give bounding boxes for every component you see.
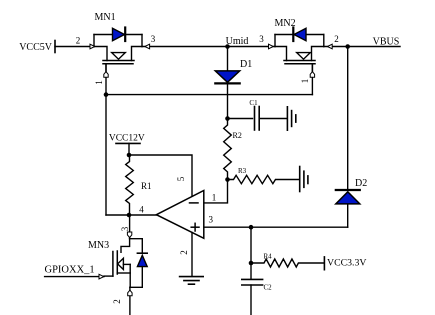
MN1 pin 1 arrow	[104, 72, 108, 78]
svg-text:VCC5V: VCC5V	[19, 42, 53, 53]
wire to capacitor C1	[228, 118, 253, 120]
svg-text:D1: D1	[240, 59, 252, 70]
MN1 pin 2 arrow	[90, 44, 95, 49]
node 4 (op-amp output)	[127, 213, 132, 218]
svg-text:R2: R2	[233, 131, 242, 140]
svg-text:2: 2	[179, 250, 189, 255]
svg-text:1: 1	[300, 79, 310, 84]
wire MN3 pin 2 down	[129, 287, 131, 315]
ground (right of C1, rotated)	[287, 107, 295, 130]
resistor R1	[126, 155, 152, 215]
diode D1	[215, 59, 252, 83]
wire C2 bottom down	[250, 285, 252, 315]
svg-text:D2: D2	[355, 178, 367, 189]
MN2 pin 2 arrow	[327, 44, 332, 49]
gate bar	[285, 63, 315, 65]
svg-text:R1: R1	[141, 181, 152, 191]
op-amp U1	[156, 191, 203, 239]
svg-text:MN1: MN1	[95, 12, 116, 23]
svg-text:2: 2	[76, 36, 81, 46]
svg-text:2: 2	[334, 34, 339, 44]
transistor MN2	[275, 18, 324, 72]
bridge left vertical	[274, 35, 276, 47]
wire R2/R3 node down and left to op-amp pin 1	[204, 180, 228, 203]
channel bar	[284, 60, 315, 62]
wire junction down to R4/C2 node	[250, 227, 252, 263]
wire D2 anode corner	[347, 204, 349, 227]
MN1 pin 3 arrow	[145, 44, 150, 49]
svg-text:R4: R4	[264, 253, 273, 261]
svg-text:MN3: MN3	[88, 240, 109, 251]
wire D2 cathode up to VBUS	[347, 47, 349, 191]
gate stub	[105, 64, 107, 72]
wire op-amp pin 2 to ground	[191, 233, 193, 277]
wire VCC12V node to op-amp pin 5	[129, 155, 192, 196]
svg-text:5: 5	[176, 176, 186, 181]
body diode of MN2	[294, 28, 306, 40]
node op-amp pin3 / C2 branch junction	[249, 225, 254, 230]
channel bar	[103, 60, 134, 62]
node VBUS junction	[345, 44, 350, 49]
MN3 pin 3 arrow	[127, 232, 131, 238]
minus input mark	[190, 202, 199, 204]
wire Umid down to D1	[227, 47, 229, 71]
transistor MN1	[94, 12, 142, 72]
wire gate net down the left side	[105, 95, 107, 215]
svg-text:VCC3.3V: VCC3.3V	[327, 257, 366, 268]
wire left column to node 4	[106, 214, 156, 216]
power port VCC12V	[109, 134, 145, 156]
bridge left vertical	[93, 35, 95, 47]
node gate-net junction	[104, 92, 109, 97]
node Umid	[225, 44, 230, 49]
svg-text:GPIOXX_1: GPIOXX_1	[45, 265, 95, 276]
node C1 junction	[225, 116, 230, 121]
bridge top	[94, 34, 142, 36]
svg-text:3: 3	[151, 34, 156, 44]
svg-text:3: 3	[120, 226, 130, 231]
MN3 pin 2 arrow	[128, 290, 132, 296]
resistor R4	[251, 253, 324, 268]
capacitor C1	[249, 99, 259, 130]
source rail	[129, 264, 131, 287]
bridge right vertical	[141, 35, 143, 47]
wire C1 to ground	[259, 118, 287, 120]
svg-text:3: 3	[209, 215, 214, 225]
wire gate net horizontal	[106, 94, 312, 96]
svg-text:2: 2	[112, 299, 122, 304]
svg-text:R3: R3	[238, 167, 247, 175]
svg-text:1: 1	[212, 192, 217, 202]
wire MN2 pin 1 down to gate net	[311, 64, 313, 95]
gate stub	[311, 64, 313, 72]
resistor R2	[224, 119, 242, 180]
node R2/R3 junction	[225, 177, 230, 182]
left source lead	[94, 47, 107, 61]
svg-text:1: 1	[94, 80, 104, 85]
node R4/C2 junction	[249, 261, 254, 266]
diode D2	[336, 178, 367, 204]
svg-text:4: 4	[139, 204, 144, 214]
drain lead	[121, 237, 130, 252]
ground (below op-amp)	[180, 277, 204, 285]
gate wire stub	[104, 275, 113, 277]
svg-text:VBUS: VBUS	[373, 37, 400, 48]
wire MN1 pin 1 down to gate net	[105, 64, 107, 95]
MN3 pin 1 arrow	[99, 274, 104, 279]
capacitor C2	[242, 263, 272, 292]
power port VCC3.3V	[324, 257, 366, 270]
power port VCC5V	[19, 41, 55, 54]
MN2 pin 3 arrow	[269, 44, 274, 49]
gate bar	[112, 252, 114, 277]
substrate lead	[123, 263, 130, 265]
wire GPIOXX_1 to MN3 gate	[45, 276, 104, 278]
source lead	[117, 272, 130, 274]
bridge top	[275, 34, 324, 36]
substrate arrow	[297, 53, 311, 60]
channel bar	[116, 251, 118, 274]
right drain lead	[132, 47, 143, 61]
wire op-amp pin 3 to D2	[204, 226, 348, 228]
body diode of MN3	[137, 252, 147, 254]
svg-text:C2: C2	[264, 284, 273, 292]
svg-text:3: 3	[259, 34, 264, 44]
substrate arrow	[118, 258, 124, 269]
right source lead	[312, 47, 324, 61]
pin arrow glyphs layer	[90, 44, 332, 296]
gate bar	[103, 63, 133, 65]
substrate arrow	[112, 53, 126, 60]
body diode of MN1	[113, 28, 125, 40]
bridge right vertical	[323, 35, 325, 47]
body diode branch top	[130, 239, 143, 253]
body diode branch bottom	[130, 267, 142, 288]
plus input mark	[191, 226, 199, 228]
ground (right of R3, rotated)	[300, 167, 308, 192]
wire node 4 down to MN3 pin 3	[129, 215, 131, 238]
transistor MN3	[88, 237, 147, 287]
wire MN2 pin 2 to VBUS	[324, 46, 400, 48]
wire D1 cathode down to C1 node (crosses gate net)	[227, 85, 229, 119]
wire MN1 pin 3 to MN2 pin 3 (Umid net)	[142, 46, 275, 48]
MN2 pin 1 arrow	[310, 72, 314, 78]
svg-text:VCC12V: VCC12V	[109, 134, 145, 144]
resistor R3	[228, 167, 300, 184]
svg-text:Umid: Umid	[226, 36, 249, 47]
left drain lead	[275, 47, 287, 61]
node VCC12V junction	[127, 153, 132, 158]
wire VCC5V to MN1 pin 2	[55, 46, 94, 48]
